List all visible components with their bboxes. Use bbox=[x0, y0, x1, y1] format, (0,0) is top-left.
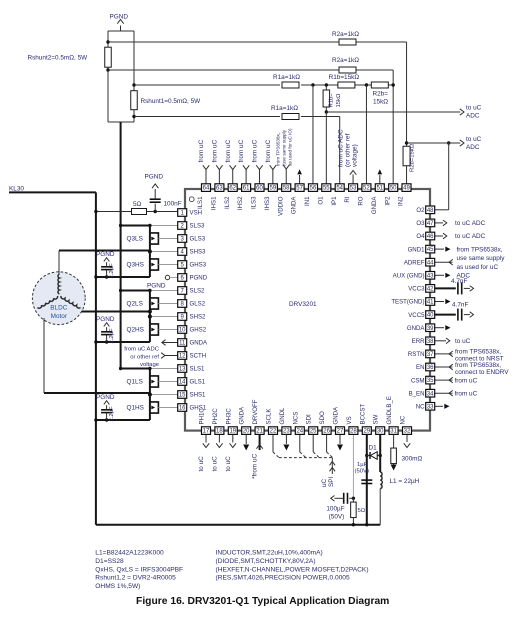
svg-text:O2: O2 bbox=[416, 207, 425, 214]
svg-text:RSTN: RSTN bbox=[408, 351, 425, 358]
svg-text:35: 35 bbox=[427, 378, 434, 384]
svg-text:O1: O1 bbox=[317, 196, 324, 205]
svg-text:46: 46 bbox=[427, 234, 434, 240]
svg-text:GNDLB_E: GNDLB_E bbox=[386, 396, 393, 424]
svg-text:to uC: to uC bbox=[212, 456, 219, 472]
svg-text:to uC: to uC bbox=[466, 136, 482, 143]
svg-text:B_EN: B_EN bbox=[409, 390, 425, 397]
svg-text:*from uC: *from uC bbox=[252, 453, 259, 479]
svg-text:51: 51 bbox=[376, 186, 383, 192]
svg-text:Q1HS: Q1HS bbox=[127, 405, 144, 412]
svg-text:(RES,SMT,4026,PRECISION POWER,: (RES,SMT,4026,PRECISION POWER,0.0005 bbox=[216, 575, 350, 582]
svg-text:NC: NC bbox=[400, 415, 407, 424]
svg-text:ADREF: ADREF bbox=[404, 259, 425, 266]
svg-text:61: 61 bbox=[243, 186, 250, 192]
svg-text:CSM: CSM bbox=[411, 377, 425, 384]
svg-text:R2a=1kΩ: R2a=1kΩ bbox=[332, 31, 359, 38]
svg-text:R2b=: R2b= bbox=[373, 91, 389, 98]
svg-text:Q3HS: Q3HS bbox=[127, 262, 144, 269]
svg-text:15kΩ: 15kΩ bbox=[373, 99, 388, 106]
svg-text:56: 56 bbox=[310, 186, 317, 192]
svg-text:53: 53 bbox=[350, 186, 357, 192]
svg-text:100µF: 100µF bbox=[326, 506, 344, 513]
svg-text:SCTH: SCTH bbox=[190, 353, 207, 360]
svg-text:34: 34 bbox=[427, 391, 434, 397]
svg-text:L1=B82442A1223K000: L1=B82442A1223K000 bbox=[95, 550, 164, 557]
svg-text:RI: RI bbox=[344, 196, 351, 202]
svg-text:BLDC: BLDC bbox=[50, 305, 67, 312]
svg-text:from TPS6538x,: from TPS6538x, bbox=[275, 133, 280, 166]
svg-text:17: 17 bbox=[203, 429, 210, 435]
svg-text:VCC5: VCC5 bbox=[408, 312, 425, 319]
svg-text:55: 55 bbox=[323, 186, 330, 192]
svg-text:as used for uC IO): as used for uC IO) bbox=[287, 128, 292, 166]
svg-text:use same supply: use same supply bbox=[457, 255, 506, 262]
svg-text:SLS2: SLS2 bbox=[190, 288, 206, 295]
svg-text:from uC: from uC bbox=[211, 139, 218, 162]
svg-text:50: 50 bbox=[390, 186, 397, 192]
svg-text:GNDA: GNDA bbox=[190, 340, 209, 347]
svg-text:13: 13 bbox=[179, 367, 186, 373]
svg-text:IP2: IP2 bbox=[384, 196, 391, 206]
svg-text:SPI: SPI bbox=[328, 476, 335, 487]
svg-text:36: 36 bbox=[427, 365, 434, 371]
svg-text:GNDA: GNDA bbox=[239, 406, 246, 425]
svg-text:39: 39 bbox=[427, 326, 434, 332]
svg-text:24: 24 bbox=[296, 429, 303, 435]
svg-text:30: 30 bbox=[377, 429, 384, 435]
svg-text:Q2LS: Q2LS bbox=[127, 301, 143, 308]
svg-text:GNDA: GNDA bbox=[291, 196, 298, 215]
svg-text:5Ω: 5Ω bbox=[358, 508, 366, 514]
svg-text:Q2HS: Q2HS bbox=[127, 327, 144, 334]
svg-text:2.2µF: 2.2µF bbox=[109, 263, 115, 279]
svg-text:5Ω: 5Ω bbox=[133, 201, 142, 208]
svg-text:12: 12 bbox=[179, 354, 186, 360]
svg-text:Rshunt1=0.5mΩ, 5W: Rshunt1=0.5mΩ, 5W bbox=[141, 98, 202, 105]
svg-text:from uC: from uC bbox=[455, 390, 478, 397]
svg-text:PGND: PGND bbox=[190, 275, 208, 282]
svg-text:ILS3: ILS3 bbox=[251, 196, 258, 209]
svg-text:to uC: to uC bbox=[225, 456, 232, 472]
svg-text:(DIODE,SMT,SCHOTTKY,80V,2A): (DIODE,SMT,SCHOTTKY,80V,2A) bbox=[216, 558, 316, 565]
svg-text:TEST(GND): TEST(GND) bbox=[391, 299, 424, 306]
svg-text:to uC: to uC bbox=[198, 456, 205, 472]
svg-text:(50V): (50V) bbox=[329, 514, 345, 521]
svg-text:52: 52 bbox=[363, 186, 370, 192]
svg-text:ILS2: ILS2 bbox=[224, 196, 231, 209]
svg-text:62: 62 bbox=[229, 186, 236, 192]
svg-text:to uC: to uC bbox=[455, 338, 471, 345]
svg-text:SHS3: SHS3 bbox=[190, 249, 207, 256]
svg-text:from uC: from uC bbox=[198, 139, 205, 162]
svg-text:IN2: IN2 bbox=[398, 196, 405, 206]
svg-text:29: 29 bbox=[363, 429, 370, 435]
svg-text:from uC: from uC bbox=[265, 139, 272, 162]
svg-text:GHS2: GHS2 bbox=[190, 327, 207, 334]
svg-text:R1a=1kΩ: R1a=1kΩ bbox=[271, 105, 298, 112]
svg-text:to uC ADC: to uC ADC bbox=[455, 220, 486, 227]
svg-text:14: 14 bbox=[179, 380, 186, 386]
svg-text:25: 25 bbox=[310, 429, 317, 435]
svg-text:VCC3: VCC3 bbox=[408, 286, 425, 293]
svg-text:SCLK: SCLK bbox=[266, 409, 273, 425]
svg-text:R2a=1kΩ: R2a=1kΩ bbox=[332, 57, 359, 64]
svg-text:44: 44 bbox=[427, 260, 434, 266]
svg-text:16: 16 bbox=[179, 406, 186, 412]
svg-text:Rshunt1,2 = DVR2-4R0005: Rshunt1,2 = DVR2-4R0005 bbox=[95, 575, 176, 582]
svg-text:PGND: PGND bbox=[96, 394, 115, 401]
svg-text:100nF: 100nF bbox=[164, 201, 182, 208]
svg-text:to uC: to uC bbox=[466, 105, 482, 112]
svg-text:PGND: PGND bbox=[110, 14, 129, 21]
svg-text:42: 42 bbox=[427, 287, 434, 293]
svg-text:AUX (GND): AUX (GND) bbox=[393, 273, 425, 280]
svg-text:40: 40 bbox=[427, 313, 434, 319]
svg-text:PH3C: PH3C bbox=[225, 408, 232, 425]
svg-text:22: 22 bbox=[270, 429, 277, 435]
svg-text:27: 27 bbox=[337, 429, 344, 435]
svg-text:GNDA: GNDA bbox=[371, 196, 378, 215]
svg-text:or other ref: or other ref bbox=[130, 354, 159, 360]
svg-text:58: 58 bbox=[283, 186, 290, 192]
svg-text:10: 10 bbox=[179, 328, 186, 334]
svg-text:GLS1: GLS1 bbox=[190, 379, 206, 386]
svg-text:SHS1: SHS1 bbox=[190, 392, 207, 399]
svg-text:32: 32 bbox=[404, 429, 411, 435]
svg-text:NC: NC bbox=[416, 404, 425, 411]
svg-text:ERR: ERR bbox=[412, 338, 425, 345]
svg-text:GNDA: GNDA bbox=[333, 406, 340, 425]
svg-text:Figure 16. DRV3201-Q1 Typical: Figure 16. DRV3201-Q1 Typical Applicatio… bbox=[136, 596, 389, 607]
svg-text:300mΩ: 300mΩ bbox=[402, 456, 423, 463]
svg-text:BCCST: BCCST bbox=[359, 404, 366, 425]
svg-text:DRVOFF: DRVOFF bbox=[252, 399, 259, 424]
svg-text:O3: O3 bbox=[416, 220, 425, 227]
svg-text:DRV3201: DRV3201 bbox=[289, 301, 317, 308]
svg-text:45: 45 bbox=[427, 247, 434, 253]
svg-text:GND1: GND1 bbox=[408, 246, 426, 253]
svg-text:Motor: Motor bbox=[51, 313, 68, 320]
svg-text:GNDL: GNDL bbox=[279, 407, 286, 425]
svg-text:33: 33 bbox=[427, 404, 434, 410]
svg-text:RO: RO bbox=[358, 196, 365, 205]
svg-text:SDO: SDO bbox=[319, 411, 326, 424]
svg-text:NCS: NCS bbox=[292, 412, 299, 425]
svg-text:IN1: IN1 bbox=[304, 196, 311, 206]
svg-text:59: 59 bbox=[270, 186, 277, 192]
svg-text:41: 41 bbox=[427, 300, 434, 306]
svg-text:from uC: from uC bbox=[455, 377, 478, 384]
svg-text:to uC ADC: to uC ADC bbox=[455, 233, 486, 240]
svg-text:R2b=15kΩ: R2b=15kΩ bbox=[410, 143, 416, 172]
svg-text:GHS1: GHS1 bbox=[190, 405, 207, 412]
svg-text:GHS3: GHS3 bbox=[190, 262, 207, 269]
svg-text:connect to ENDRV: connect to ENDRV bbox=[455, 369, 509, 376]
svg-text:47: 47 bbox=[427, 221, 434, 227]
svg-text:EN: EN bbox=[416, 364, 424, 371]
svg-text:IHS1: IHS1 bbox=[210, 196, 217, 210]
svg-text:(HEXFET,N-CHANNEL,POWER MOSFET: (HEXFET,N-CHANNEL,POWER MOSFET,D2PACK) bbox=[216, 566, 369, 573]
svg-text:Q1LS: Q1LS bbox=[127, 379, 143, 386]
svg-text:from uC: from uC bbox=[252, 139, 259, 162]
svg-text:L1 = 22µH: L1 = 22µH bbox=[390, 478, 420, 485]
svg-text:uC: uC bbox=[321, 478, 328, 487]
svg-text:2.2µF: 2.2µF bbox=[109, 406, 115, 422]
svg-text:voltage: voltage bbox=[140, 362, 160, 368]
svg-text:(50V): (50V) bbox=[355, 469, 369, 475]
svg-text:Rshunt2=0.5mΩ, 5W: Rshunt2=0.5mΩ, 5W bbox=[28, 55, 89, 62]
svg-text:IHS2: IHS2 bbox=[237, 196, 244, 210]
svg-text:SHS2: SHS2 bbox=[190, 314, 207, 321]
svg-text:R1b=: R1b= bbox=[329, 93, 335, 108]
svg-text:31: 31 bbox=[390, 429, 397, 435]
svg-text:38: 38 bbox=[427, 339, 434, 345]
svg-text:D1: D1 bbox=[369, 445, 378, 452]
svg-text:VS: VS bbox=[346, 416, 353, 424]
svg-text:(use same supply: (use same supply bbox=[281, 129, 286, 166]
svg-text:(or other ref: (or other ref bbox=[345, 133, 352, 167]
svg-text:60: 60 bbox=[256, 186, 263, 192]
svg-text:26: 26 bbox=[323, 429, 330, 435]
svg-text:28: 28 bbox=[350, 429, 357, 435]
svg-text:SW: SW bbox=[373, 414, 380, 424]
svg-text:voltage): voltage) bbox=[352, 144, 359, 167]
svg-text:from TPS6538x,: from TPS6538x, bbox=[457, 247, 503, 254]
svg-text:ADC: ADC bbox=[466, 113, 480, 120]
svg-text:PGND: PGND bbox=[96, 251, 115, 258]
svg-text:INDUCTOR,SMT,22uH,10%,400mA): INDUCTOR,SMT,22uH,10%,400mA) bbox=[216, 550, 323, 557]
svg-text:23: 23 bbox=[283, 429, 290, 435]
svg-text:PGND: PGND bbox=[145, 174, 164, 181]
svg-text:48: 48 bbox=[427, 208, 434, 214]
svg-text:O4: O4 bbox=[416, 233, 425, 240]
svg-text:D1=SS28: D1=SS28 bbox=[95, 558, 124, 565]
svg-text:as used for uC: as used for uC bbox=[457, 264, 499, 271]
svg-text:from uC ADC: from uC ADC bbox=[338, 129, 345, 167]
svg-text:43: 43 bbox=[427, 273, 434, 279]
svg-text:4.7nF: 4.7nF bbox=[452, 302, 468, 309]
svg-text:QxHS, QxLS = IRFS3004PBF: QxHS, QxLS = IRFS3004PBF bbox=[95, 566, 183, 573]
svg-text:PGND: PGND bbox=[147, 283, 166, 290]
svg-text:SLS1: SLS1 bbox=[190, 366, 206, 373]
svg-text:37: 37 bbox=[427, 352, 434, 358]
svg-text:OHMS 1%,5W): OHMS 1%,5W) bbox=[95, 583, 140, 590]
svg-text:15kΩ: 15kΩ bbox=[336, 93, 342, 107]
svg-text:15: 15 bbox=[179, 393, 186, 399]
svg-text:from TPS6538x,: from TPS6538x, bbox=[455, 362, 501, 369]
svg-text:SDI: SDI bbox=[306, 414, 313, 424]
svg-text:IP1: IP1 bbox=[331, 196, 338, 206]
svg-text:from uC: from uC bbox=[238, 139, 245, 162]
svg-text:54: 54 bbox=[336, 186, 343, 192]
svg-text:from uC: from uC bbox=[225, 139, 232, 162]
svg-text:R1b=15kΩ: R1b=15kΩ bbox=[329, 74, 360, 81]
svg-text:1µF: 1µF bbox=[357, 462, 368, 468]
svg-text:64: 64 bbox=[203, 186, 210, 192]
svg-text:Q3LS: Q3LS bbox=[127, 236, 143, 243]
svg-text:from TPS6538x,: from TPS6538x, bbox=[455, 349, 501, 356]
svg-text:PH2C: PH2C bbox=[212, 408, 219, 425]
svg-text:11: 11 bbox=[179, 341, 186, 347]
svg-text:GNDA: GNDA bbox=[407, 325, 426, 332]
svg-text:from uC ADC: from uC ADC bbox=[124, 347, 159, 353]
svg-text:GLS3: GLS3 bbox=[190, 236, 206, 243]
svg-text:VSH: VSH bbox=[190, 210, 203, 217]
svg-text:GLS2: GLS2 bbox=[190, 301, 206, 308]
svg-text:IHS3: IHS3 bbox=[264, 196, 271, 210]
svg-text:2.2µF: 2.2µF bbox=[109, 328, 115, 344]
svg-text:R1a=1kΩ: R1a=1kΩ bbox=[273, 74, 300, 81]
svg-text:49: 49 bbox=[403, 186, 410, 192]
svg-text:21: 21 bbox=[256, 429, 263, 435]
svg-text:4.7nF: 4.7nF bbox=[451, 278, 467, 285]
svg-text:VDDIO: VDDIO bbox=[277, 196, 284, 216]
svg-text:18: 18 bbox=[216, 429, 223, 435]
svg-text:57: 57 bbox=[296, 186, 303, 192]
svg-text:19: 19 bbox=[229, 429, 236, 435]
svg-text:63: 63 bbox=[216, 186, 223, 192]
svg-text:ILS1: ILS1 bbox=[197, 196, 204, 209]
svg-text:ADC: ADC bbox=[466, 144, 480, 151]
svg-text:20: 20 bbox=[243, 429, 250, 435]
svg-text:SLS3: SLS3 bbox=[190, 223, 206, 230]
svg-text:PGND: PGND bbox=[96, 316, 115, 323]
